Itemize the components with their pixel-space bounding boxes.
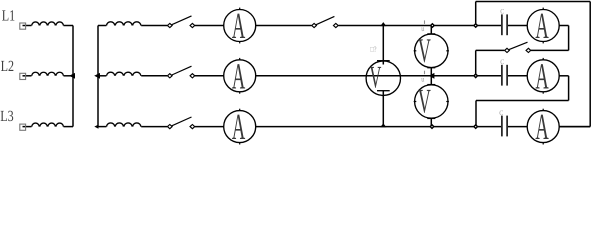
svg-text:A: A <box>232 56 246 97</box>
svg-text:A: A <box>232 107 246 147</box>
svg-text:u: u <box>421 24 424 33</box>
svg-text:A: A <box>535 107 549 147</box>
svg-text:L3: L3 <box>0 108 14 125</box>
svg-text:C: C <box>500 9 505 16</box>
svg-text:u: u <box>421 74 424 83</box>
svg-text:A: A <box>232 6 246 47</box>
svg-text:A: A <box>535 56 549 97</box>
svg-text:C: C <box>499 110 504 117</box>
svg-text:V: V <box>418 32 431 70</box>
svg-text:C: C <box>500 59 505 66</box>
svg-text:L2: L2 <box>1 58 14 75</box>
svg-text:L1: L1 <box>2 8 15 25</box>
svg-text:V: V <box>418 83 431 121</box>
svg-text:A: A <box>535 6 549 47</box>
svg-text:V: V <box>369 59 381 94</box>
svg-text:□?: □? <box>370 45 377 54</box>
